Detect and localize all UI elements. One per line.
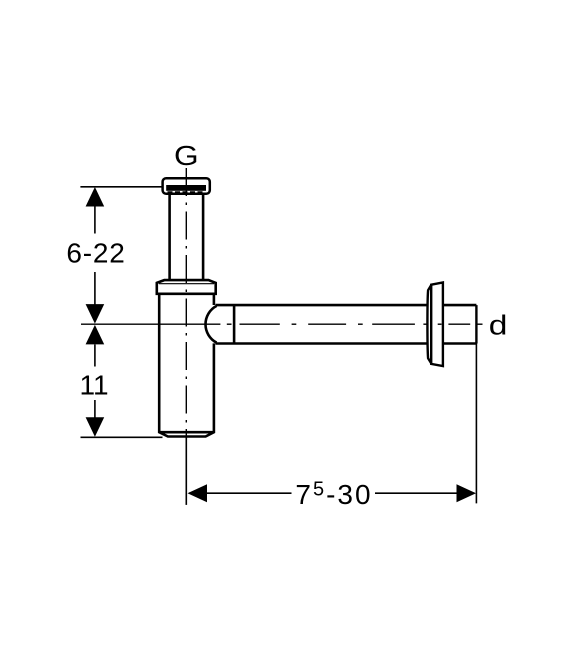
outlet elbow arc	[205, 306, 216, 343]
trap body (bottle) outline	[159, 294, 214, 437]
vertical centerline	[185, 168, 187, 437]
dimension 6-22 line	[94, 207, 96, 418]
outlet pipe bottom edge	[216, 342, 477, 345]
dimension 11 arrow up at centerline	[86, 325, 105, 345]
outlet pipe top edge	[216, 304, 477, 307]
svg-text:G: G	[174, 141, 199, 172]
wall flange rim	[427, 285, 431, 364]
trap body bottom tangent line	[159, 431, 214, 434]
outlet pipe end line	[475, 305, 477, 343]
elbow joint line	[233, 305, 236, 343]
extension line at pipe end	[475, 344, 477, 504]
collar inner line	[159, 283, 214, 285]
inlet pipe left wall	[168, 194, 171, 280]
svg-text:6-22: 6-22	[66, 238, 125, 269]
thread band	[166, 185, 206, 191]
thread serration	[168, 191, 206, 193]
union nut collar	[157, 280, 216, 294]
inlet thread cap	[163, 178, 210, 194]
svg-text:11: 11	[79, 370, 108, 401]
svg-text:d: d	[489, 309, 508, 341]
dimension 6-22 arrow down at centerline	[86, 304, 105, 324]
extension line top	[80, 186, 162, 188]
dimension 11 arrow down	[86, 417, 105, 437]
trap body right upper stub	[213, 294, 216, 305]
dimension 6-22 arrow up	[86, 187, 105, 207]
extension line below bottle	[185, 437, 187, 505]
dimension 75-30 arrow right	[457, 484, 477, 502]
wall flange plate	[431, 282, 443, 366]
inlet pipe right wall	[202, 194, 205, 280]
dimension 75-30 arrow left	[188, 484, 208, 502]
horizontal centerline	[81, 323, 483, 325]
svg-text:75-30: 75-30	[295, 479, 372, 511]
extension line bottom	[81, 436, 163, 438]
dimension 75-30 line	[189, 492, 475, 494]
